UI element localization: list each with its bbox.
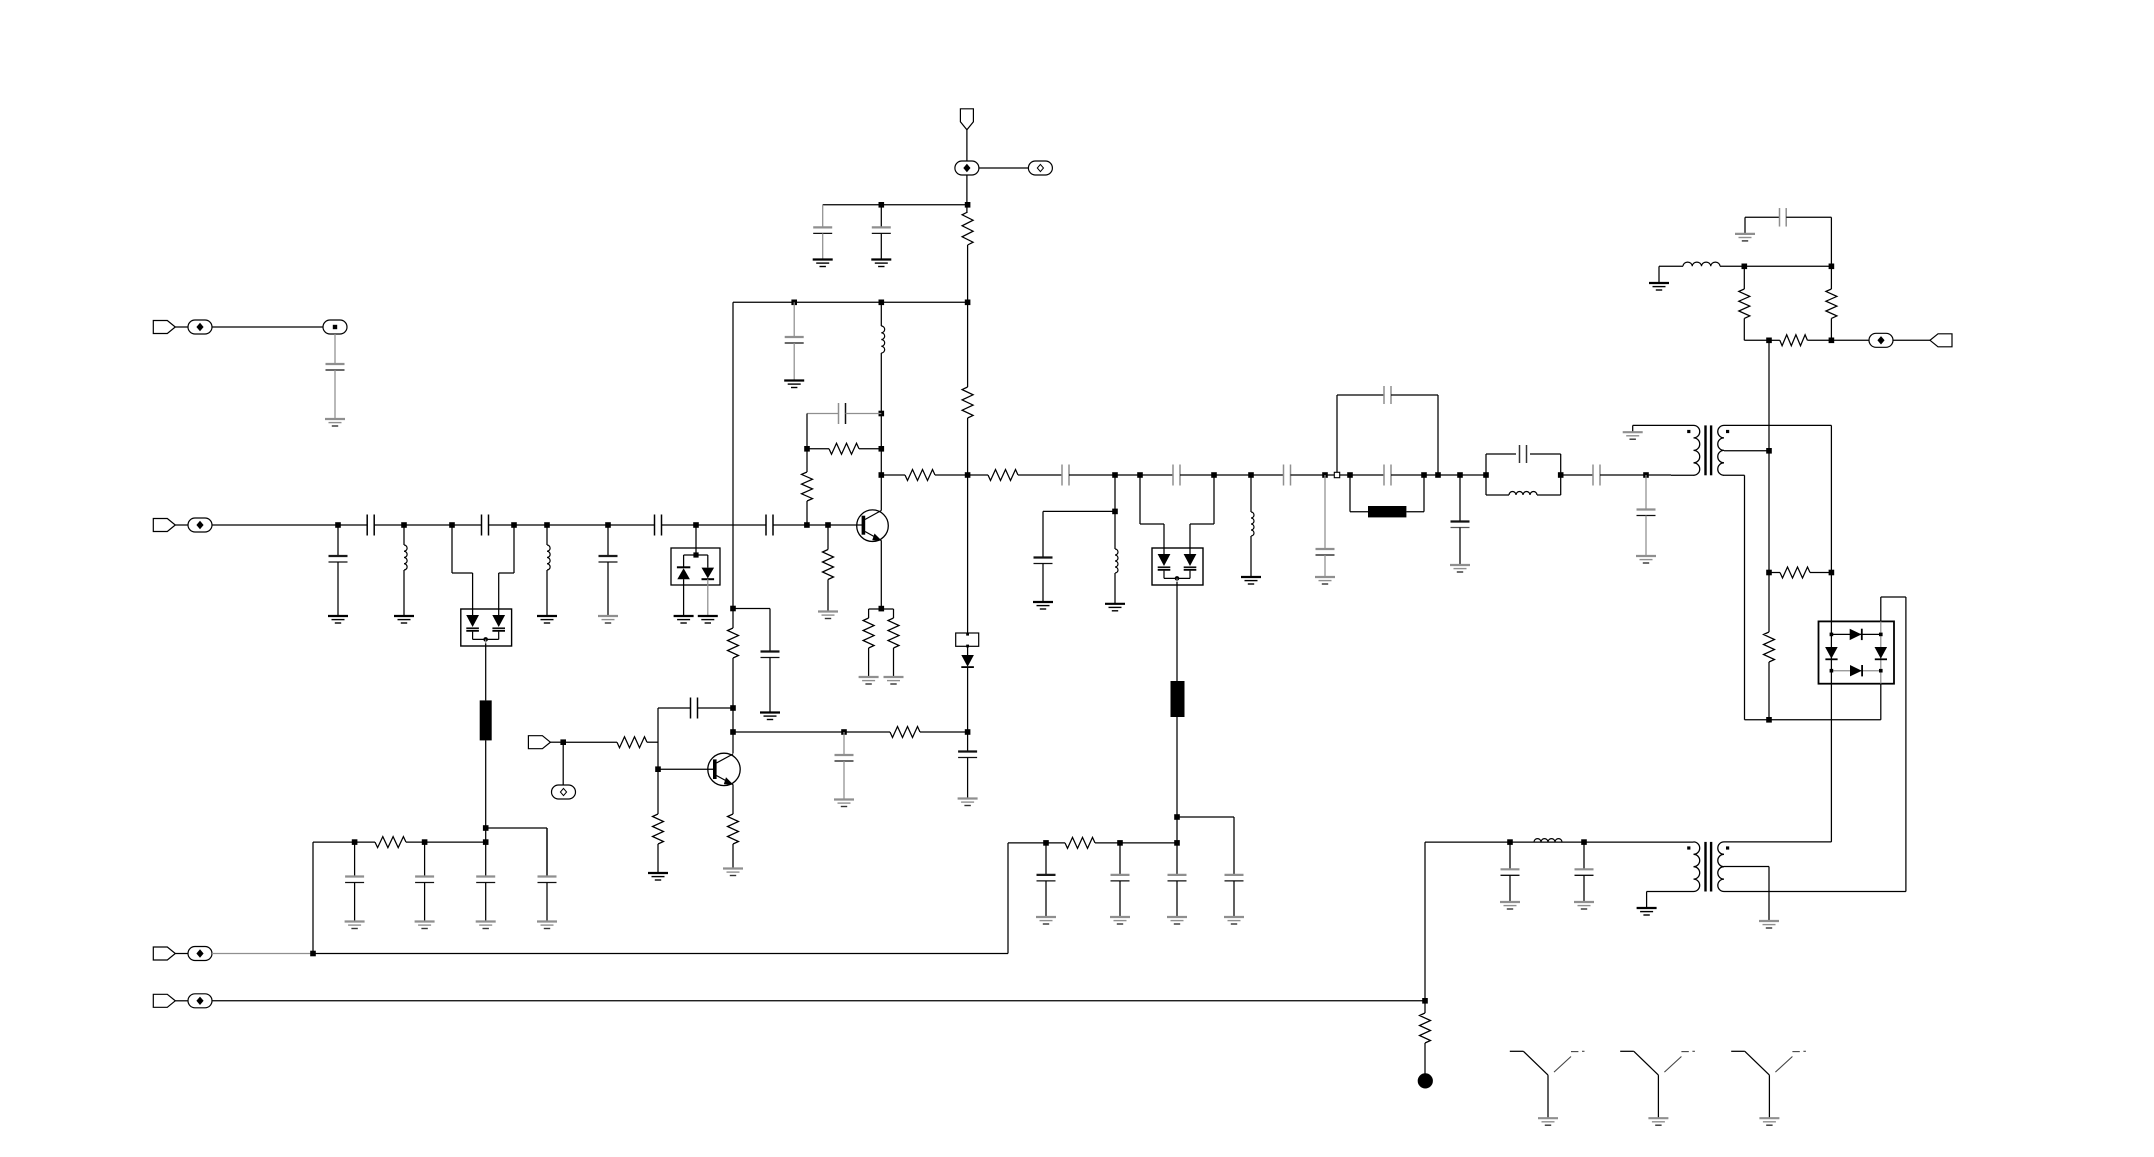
wire [1881, 596, 1906, 598]
wire [607, 562, 609, 616]
wire [806, 501, 808, 525]
wire [1893, 339, 1930, 341]
wire [1139, 475, 1141, 524]
resistor R20 [653, 814, 664, 844]
transformer T2 [1687, 842, 1729, 892]
wire [846, 413, 882, 415]
resistor R12 [1826, 289, 1837, 318]
wire [1745, 719, 1881, 721]
capacitor C18 [1316, 549, 1335, 555]
wire [1114, 475, 1116, 511]
ground [648, 873, 668, 880]
wire [1724, 450, 1769, 452]
capacitor C26 [1575, 869, 1594, 875]
connector pad P1.2 [1028, 161, 1052, 175]
wire [1018, 474, 1062, 476]
resistor R9 [905, 470, 935, 481]
wire [1583, 842, 1585, 869]
capacitor C30 [538, 877, 557, 883]
wire [823, 204, 968, 206]
ground [1167, 917, 1187, 924]
wire [658, 768, 714, 770]
wire [451, 525, 453, 573]
wire [827, 580, 829, 612]
wire [1658, 266, 1660, 283]
wire [967, 475, 969, 633]
wire [354, 883, 356, 922]
capacitor C24 [1780, 208, 1787, 227]
wire [1391, 394, 1438, 396]
wire [1391, 474, 1486, 476]
wire [773, 524, 864, 526]
resistor R5 [802, 472, 813, 501]
ground [1623, 432, 1643, 439]
node [1581, 839, 1587, 845]
wire [1768, 662, 1770, 720]
diode D1 (dual) [461, 609, 512, 646]
node [1457, 472, 1463, 478]
diode D3 (dual) [1152, 548, 1203, 585]
wire [793, 343, 795, 381]
resistor R3 [962, 387, 973, 418]
wire [1189, 524, 1191, 548]
wire [313, 841, 375, 843]
wire [683, 579, 685, 616]
wire [313, 953, 1008, 955]
wire [1114, 573, 1116, 604]
wire [822, 233, 824, 259]
port J2 [153, 519, 175, 532]
wire [607, 525, 609, 556]
connector pad J1.2 [323, 320, 347, 334]
wire [769, 658, 771, 713]
wire [546, 525, 548, 545]
wire [806, 414, 808, 473]
wire [403, 525, 405, 545]
node [965, 202, 971, 208]
wire [1807, 339, 1831, 341]
wire [967, 646, 969, 655]
capacitor C21 [1520, 445, 1527, 463]
diode D2 (dual ESD pair) [671, 548, 720, 585]
node [310, 951, 316, 957]
capacitor C20 [1451, 522, 1470, 528]
node [1766, 338, 1772, 344]
port J1 [153, 321, 175, 334]
node [1829, 338, 1835, 344]
wire [175, 953, 188, 955]
node [1043, 840, 1049, 846]
node [841, 729, 847, 735]
port P1 (supply) [960, 109, 973, 130]
node [965, 300, 971, 306]
wire [967, 667, 969, 732]
node [352, 839, 358, 845]
wire [1633, 424, 1694, 426]
wire [1645, 475, 1647, 510]
wire [1336, 395, 1338, 472]
inductor L2 [547, 545, 550, 570]
ground [1735, 234, 1755, 241]
wire [1745, 216, 1780, 218]
node [1347, 472, 1353, 478]
wire [881, 474, 905, 476]
wire [1045, 881, 1047, 917]
ground [328, 616, 348, 623]
wire [1830, 684, 1832, 842]
bridge rectifier BR1 [1819, 621, 1895, 683]
wire [657, 844, 659, 873]
wire [880, 233, 882, 259]
ground [537, 922, 557, 929]
wire [920, 731, 968, 733]
ground [871, 260, 891, 267]
wire [880, 302, 882, 326]
node [879, 300, 885, 306]
wire [1324, 555, 1326, 577]
wire [1176, 881, 1178, 917]
wire [1724, 841, 1831, 843]
ground [958, 799, 978, 806]
node [879, 411, 885, 417]
ground [1574, 902, 1594, 909]
wire [967, 418, 969, 475]
node [825, 522, 831, 528]
ground [784, 381, 804, 388]
wire [880, 475, 882, 511]
capacitor C2 [329, 556, 348, 562]
ground [1538, 1118, 1558, 1125]
ferrite bead FB1 [480, 700, 492, 740]
node [422, 839, 428, 845]
diode D4 [961, 655, 974, 667]
ground [1315, 577, 1335, 584]
wire [1007, 843, 1009, 954]
wire [647, 741, 658, 743]
transformer T1 [1687, 425, 1729, 475]
resistor R15 [1780, 567, 1810, 578]
capacitor C33 [1168, 875, 1187, 881]
node [804, 446, 810, 452]
resistor R17 [375, 837, 406, 848]
wire [1163, 524, 1165, 548]
capacitor C3 [367, 515, 374, 536]
wire [707, 579, 709, 616]
node [730, 705, 736, 711]
node [1766, 448, 1772, 454]
node [335, 522, 341, 528]
ground [394, 616, 414, 623]
wire [1646, 892, 1648, 909]
ground [1649, 283, 1669, 290]
wire [880, 353, 882, 475]
node [1421, 472, 1427, 478]
wire [1043, 510, 1115, 512]
capacitor C1 [326, 364, 345, 370]
resistor R7 [863, 618, 874, 648]
node [1248, 472, 1254, 478]
wire [546, 828, 548, 877]
connector pad J2.1 [188, 518, 212, 532]
wire [1743, 318, 1745, 340]
wire [1600, 474, 1671, 476]
capacitor C10 [813, 227, 832, 233]
wire [1459, 475, 1461, 522]
wire [657, 708, 659, 769]
wire [1045, 843, 1047, 875]
wire [967, 245, 969, 302]
wire [1349, 475, 1351, 512]
capacitor C34 [1225, 875, 1244, 881]
wire [1140, 523, 1164, 525]
node [1322, 472, 1328, 478]
wire [1423, 475, 1425, 512]
wire [657, 769, 659, 814]
wire [1337, 394, 1384, 396]
node [1112, 472, 1118, 478]
wire [1768, 867, 1770, 922]
wire [1008, 842, 1065, 844]
wire [374, 524, 481, 526]
wire [1830, 318, 1832, 340]
ground [760, 713, 780, 720]
wire [513, 525, 515, 573]
node [804, 522, 810, 528]
node [1766, 717, 1772, 723]
wire [1720, 265, 1831, 267]
wire [967, 302, 969, 387]
wire [1786, 216, 1831, 218]
wire [175, 1000, 188, 1002]
transistor Q2 [708, 753, 740, 785]
wire [732, 844, 734, 869]
node [1117, 840, 1123, 846]
ground [1637, 908, 1657, 915]
wire [1632, 425, 1634, 432]
wire [966, 130, 968, 161]
wire [212, 1000, 1425, 1002]
wire [1095, 842, 1177, 844]
resistor R10 [988, 470, 1018, 481]
wire [1119, 843, 1121, 875]
wire [732, 658, 734, 754]
ground [834, 800, 854, 807]
wire [967, 758, 969, 799]
wire [807, 448, 829, 450]
node [730, 729, 736, 735]
wire [1069, 474, 1173, 476]
node [1558, 472, 1564, 478]
wire [1176, 717, 1178, 843]
wire [698, 707, 734, 709]
node [511, 522, 517, 528]
wire [334, 370, 336, 419]
capacitor C8 [761, 652, 780, 658]
wire [859, 448, 881, 450]
wire [1744, 217, 1746, 234]
node [544, 522, 550, 528]
wire [1119, 881, 1121, 917]
wire [695, 525, 697, 555]
antenna E3 [1731, 1051, 1806, 1118]
ground [818, 612, 838, 619]
antenna E1 [1510, 1051, 1585, 1118]
node [1742, 264, 1748, 270]
ground [674, 616, 694, 623]
node [730, 606, 736, 612]
wire [732, 785, 734, 815]
resistor R22 [890, 727, 920, 738]
capacitor C17 [1034, 558, 1053, 564]
resistor R13 [1780, 335, 1808, 346]
wire [1042, 564, 1044, 603]
wire [733, 731, 890, 733]
wire [968, 474, 988, 476]
capacitor C31 [1037, 875, 1056, 881]
node [401, 522, 407, 528]
wire [562, 742, 564, 784]
wire [212, 524, 367, 526]
wire [424, 883, 426, 922]
wire [1830, 217, 1832, 289]
ground [345, 922, 365, 929]
node [1766, 570, 1772, 576]
wire [550, 741, 563, 743]
wire [807, 413, 839, 415]
antenna E2 [1620, 1051, 1695, 1118]
wire [212, 326, 324, 328]
wire [1250, 536, 1252, 577]
wire [658, 707, 691, 709]
wire [485, 644, 487, 701]
inductor L1 [404, 545, 407, 570]
wire [733, 301, 968, 303]
inductor L3 [881, 326, 884, 353]
node [879, 202, 885, 208]
capacitor C28 [415, 877, 434, 883]
capacitor C16 [1384, 465, 1391, 486]
ground [598, 616, 618, 623]
wire [1190, 523, 1214, 525]
ferrite bead FB2 [1171, 681, 1185, 717]
wire [1647, 891, 1694, 893]
node [655, 766, 661, 772]
resistor R2 [962, 212, 973, 245]
wire [733, 608, 770, 610]
wire [1291, 474, 1335, 476]
wire [485, 842, 487, 876]
wire [1509, 842, 1511, 869]
jumper W1 [956, 633, 979, 648]
node [1422, 998, 1428, 1004]
wire [868, 609, 870, 618]
wire [1768, 340, 1770, 632]
node [879, 446, 885, 452]
port J6 [528, 736, 550, 749]
port J5 [153, 994, 175, 1007]
ground [1450, 565, 1470, 572]
wire [1406, 511, 1424, 513]
node [449, 522, 455, 528]
wire [1180, 474, 1284, 476]
resistor R8 [888, 618, 899, 648]
node [483, 839, 489, 845]
ground [1036, 917, 1056, 924]
inductor L7 [1683, 262, 1720, 266]
wire [822, 205, 824, 228]
node [965, 729, 971, 735]
wire [337, 562, 339, 616]
ground [1224, 917, 1244, 924]
node [1483, 472, 1489, 478]
wire [1213, 475, 1215, 524]
wire [1810, 572, 1831, 574]
capacitor C25 [1501, 869, 1520, 875]
resistor R19 [617, 737, 647, 748]
ground [1105, 604, 1125, 611]
wire [1671, 474, 1694, 476]
resistor R21 [728, 814, 739, 844]
node [1112, 509, 1118, 515]
wire [893, 648, 895, 677]
wire [1830, 425, 1832, 621]
inductor L5 [1251, 512, 1254, 536]
wire [1724, 474, 1745, 476]
ground [723, 869, 743, 876]
capacitor C22 [1593, 465, 1600, 486]
wire [546, 883, 548, 922]
wire [662, 524, 767, 526]
wire [546, 570, 548, 616]
node [1435, 472, 1441, 478]
connector pad J1.1 [188, 320, 212, 334]
capacitor C6 [655, 515, 662, 536]
node [1829, 264, 1835, 270]
wire [546, 828, 548, 876]
resistor R1 [728, 628, 739, 658]
ground [1033, 602, 1053, 609]
port J4 [153, 947, 175, 960]
capacitor C12 [839, 403, 846, 424]
capacitor C13 [1062, 465, 1069, 486]
wire [966, 175, 968, 212]
capacitor C7 [766, 515, 773, 536]
wire [1880, 597, 1882, 621]
wire [880, 205, 882, 228]
node [965, 472, 971, 478]
wire [1176, 843, 1178, 875]
resistor R16 [1420, 1013, 1431, 1043]
wire [843, 732, 845, 755]
inductor L4 [1115, 549, 1118, 573]
wire [732, 302, 734, 628]
ferrite bead FB3 [1368, 506, 1406, 517]
resistor R4 [829, 443, 859, 454]
wire [1769, 572, 1780, 574]
wire [334, 334, 336, 364]
wire [967, 732, 969, 752]
wire [424, 842, 426, 876]
wire [793, 302, 795, 337]
ground [1648, 1118, 1668, 1125]
wire [869, 608, 894, 610]
capacitor C36 [835, 755, 854, 761]
wire [1350, 511, 1368, 513]
ground [415, 922, 435, 929]
wire [1176, 582, 1178, 681]
wire [1324, 475, 1326, 549]
wire [979, 167, 1028, 169]
